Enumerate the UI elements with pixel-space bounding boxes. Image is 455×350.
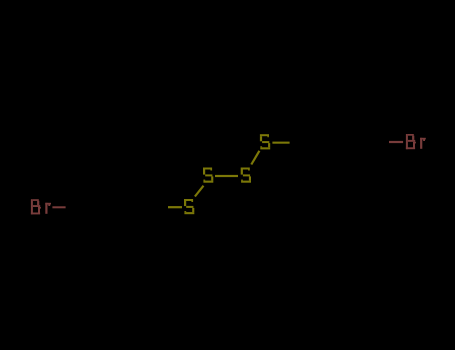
bond S3-S4 (diagonal) [251, 151, 259, 165]
bond S4-C (visible olive half-stub) [272, 142, 289, 144]
bond S1-S2 (diagonal) [195, 186, 204, 197]
atom S2 [203, 168, 213, 183]
atom S4 [260, 134, 270, 149]
atom Br2 (right bromine label) [406, 134, 416, 149]
bond S2-S3 (horizontal) [215, 175, 238, 177]
bond Br1-C (visible red half-stub) [52, 206, 65, 208]
bond C-S1 (visible olive half-stub) [168, 206, 182, 208]
atom Br1 (left bromine label) [31, 199, 41, 214]
atom S1 [184, 199, 194, 214]
atom S3 [241, 168, 251, 183]
bond C-Br2 (visible red half-stub) [389, 141, 403, 143]
